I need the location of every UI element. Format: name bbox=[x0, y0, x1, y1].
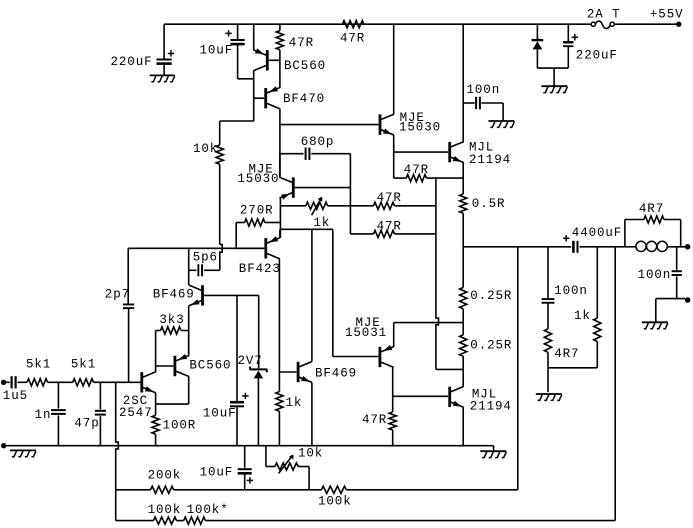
wire bias node down to 15031 base bbox=[333, 229, 379, 356]
wire Q8 collector down bbox=[188, 376, 190, 404]
svg-text:1k: 1k bbox=[574, 309, 591, 323]
svg-text:5p6: 5p6 bbox=[193, 250, 218, 264]
plus sign C2 bbox=[225, 30, 231, 36]
wire Q11 collector to Q12 base bbox=[393, 395, 448, 397]
svg-text:BF470: BF470 bbox=[283, 92, 325, 106]
svg-text:220uF: 220uF bbox=[111, 55, 153, 69]
label 21194 Q4 bbox=[469, 153, 511, 167]
capacitor C11 10uF bbox=[230, 401, 244, 446]
resistor R22 100k bbox=[153, 517, 183, 524]
label 21194 Q12 bbox=[470, 400, 512, 414]
ground symbol PSU bbox=[541, 86, 567, 92]
label +55V bbox=[650, 8, 684, 22]
svg-text:BF469: BF469 bbox=[153, 288, 195, 302]
value label 47R R3 bbox=[340, 31, 365, 45]
label BF469 Q10 bbox=[315, 366, 357, 380]
wire 5p6 branch left bbox=[188, 248, 190, 285]
plus sign C11 bbox=[242, 393, 248, 399]
value label 47R R4 bbox=[404, 163, 429, 177]
ground symbol input bbox=[10, 450, 36, 456]
svg-text:220uF: 220uF bbox=[576, 49, 618, 63]
label 15030 Q3 bbox=[399, 121, 441, 135]
value label 270R R6 bbox=[240, 203, 274, 217]
value label 47R R14 bbox=[362, 413, 387, 427]
label MJE Q11 bbox=[356, 316, 381, 330]
value label 2V7 D2 bbox=[238, 354, 263, 368]
fuse F1 2A T bbox=[591, 21, 614, 28]
value label 47R R7 bbox=[377, 191, 402, 205]
wire 3k3 left down bbox=[155, 331, 157, 373]
value label 5k1 R12 bbox=[71, 358, 96, 372]
wire Q11 emitter up bbox=[393, 323, 395, 347]
svg-text:15030: 15030 bbox=[237, 172, 279, 186]
svg-text:200k: 200k bbox=[148, 469, 182, 483]
ground symbol zobel bbox=[536, 394, 562, 400]
terminal +55V bbox=[676, 22, 681, 27]
svg-text:0.25R: 0.25R bbox=[470, 289, 512, 303]
resistor R19 1k output bbox=[594, 247, 601, 368]
value label 4R7 R17 bbox=[639, 202, 664, 216]
transistor Q8 BC560 PNP bbox=[156, 354, 189, 376]
svg-text:+55V: +55V bbox=[650, 8, 684, 22]
label BC560 Q1 bbox=[284, 59, 326, 73]
svg-text:2547: 2547 bbox=[119, 406, 153, 420]
value label 1k R19 bbox=[574, 309, 591, 323]
wire feedback tap with hop over ground rail bbox=[116, 382, 119, 520]
capacitor C8 1u5 input bbox=[6, 376, 27, 388]
resistor R15 0.25R bbox=[460, 288, 467, 323]
svg-text:BC560: BC560 bbox=[189, 359, 231, 373]
svg-text:15030: 15030 bbox=[399, 121, 441, 135]
wire Q11 emitter line bbox=[394, 322, 464, 324]
svg-text:10uF: 10uF bbox=[200, 43, 234, 57]
transistor Q6 BF423 PNP bbox=[236, 236, 279, 258]
value label 10uF C11 bbox=[203, 407, 237, 421]
svg-text:47R: 47R bbox=[340, 31, 365, 45]
label BF470 Q2 bbox=[283, 92, 325, 106]
svg-text:2A T: 2A T bbox=[587, 8, 621, 22]
svg-text:BF469: BF469 bbox=[315, 366, 357, 380]
resistor R4 47R driver-output bbox=[394, 175, 464, 182]
transistor Q11 MJE15031 PNP driver bbox=[379, 345, 394, 367]
svg-text:1n: 1n bbox=[35, 408, 52, 422]
svg-text:BC560: BC560 bbox=[284, 59, 326, 73]
label MJE Q5 bbox=[249, 163, 274, 177]
capacitor C15 10uF feedback bbox=[238, 446, 252, 490]
value label 10k R2 bbox=[193, 142, 218, 156]
value label 5k1 R11 bbox=[26, 358, 51, 372]
value label 680p C5 bbox=[301, 135, 335, 149]
value label 100n C4 bbox=[467, 83, 501, 97]
value label 0.5R R5 bbox=[472, 197, 506, 211]
value label 1u5 C8 bbox=[3, 389, 28, 403]
wire output rail bbox=[463, 246, 571, 248]
transistor Q4 MJL21194 NPN bbox=[448, 142, 463, 163]
svg-text:3k3: 3k3 bbox=[159, 313, 184, 327]
wire zobel bottoms join bbox=[548, 367, 597, 369]
wire Q12 emitter down to rail bbox=[462, 407, 464, 446]
transistor Q5 MJE15030 VAS bbox=[280, 177, 351, 199]
wire 270R left down to BF423 base bbox=[235, 223, 237, 249]
value label 0.25R R15 bbox=[470, 289, 512, 303]
value label 1k R13 bbox=[286, 396, 303, 410]
plus sign C15 bbox=[247, 477, 253, 483]
plus sign C12 bbox=[563, 235, 569, 241]
wire bias node across bbox=[280, 228, 332, 230]
svg-text:5k1: 5k1 bbox=[71, 358, 96, 372]
resistor R12 5k1 bbox=[73, 379, 141, 386]
wire R7/R8 node with hop bbox=[436, 178, 439, 369]
svg-text:21194: 21194 bbox=[470, 400, 512, 414]
capacitor C6 2p7 bbox=[123, 304, 134, 383]
resistor R20 200k bbox=[151, 486, 322, 493]
capacitor C1 220uF rail decoupling bbox=[157, 24, 172, 75]
value label 100R R10 bbox=[163, 418, 197, 432]
wire VAS base column bbox=[349, 154, 351, 234]
value label 200k R20 bbox=[148, 469, 182, 483]
wire FB2 line left bbox=[116, 520, 154, 522]
value label 2p7 C6 bbox=[105, 288, 130, 302]
resistor R16 0.25R bbox=[460, 323, 467, 370]
svg-text:1k: 1k bbox=[286, 396, 303, 410]
wire output column upper bbox=[462, 247, 464, 288]
svg-text:100n: 100n bbox=[467, 83, 501, 97]
value label 100n C14 bbox=[554, 284, 588, 298]
value label 100n C13 bbox=[638, 268, 672, 282]
zener diode D2 2V7 bbox=[250, 367, 267, 446]
value label 100k R21 bbox=[318, 495, 352, 509]
label BF423 Q6 bbox=[239, 262, 281, 276]
wire PSU bottoms join bbox=[537, 68, 568, 86]
wire Q5 collector up bbox=[279, 154, 281, 178]
svg-text:2V7: 2V7 bbox=[238, 354, 263, 368]
svg-text:10uF: 10uF bbox=[203, 407, 237, 421]
wire Q2 base node to 10k bbox=[220, 121, 254, 145]
svg-text:47R: 47R bbox=[289, 36, 314, 50]
capacitor C10 47p bbox=[95, 382, 106, 445]
wire Q1 collector down bbox=[253, 71, 255, 121]
transistor Q2 BF470 PNP bbox=[254, 86, 280, 108]
svg-text:680p: 680p bbox=[301, 135, 335, 149]
wire Q10 emitter down bbox=[311, 383, 313, 446]
label 2SC Q9 bbox=[123, 394, 148, 408]
wire Q9 emitter node bbox=[156, 393, 189, 405]
wire Q5 emitter down bbox=[279, 198, 281, 238]
svg-text:100k: 100k bbox=[148, 503, 182, 517]
wire Q8 emitter up bbox=[188, 331, 190, 356]
svg-text:100k*: 100k* bbox=[187, 503, 229, 517]
wire emitter line to output column bbox=[436, 368, 463, 370]
value label 10uF bbox=[200, 43, 234, 57]
value label 5p6 C7 bbox=[193, 250, 218, 264]
value label 10uF C15 bbox=[200, 466, 234, 480]
transistor Q12 MJL21194 NPN bbox=[448, 387, 463, 408]
wire to ground C13 bbox=[655, 299, 657, 322]
resistor R14 47R lower bias bbox=[389, 412, 396, 446]
wire ground rail bbox=[4, 445, 494, 447]
label 2547 Q9 bbox=[119, 406, 153, 420]
capacitor C2 10uF bootstrap bbox=[231, 24, 245, 45]
svg-text:100R: 100R bbox=[163, 418, 197, 432]
label MJL Q12 bbox=[472, 387, 497, 401]
svg-text:100k: 100k bbox=[318, 495, 352, 509]
transistor Q10 BF469 NPN bbox=[279, 362, 312, 383]
terminal output bbox=[685, 244, 691, 250]
wire Q9 collector up bbox=[0, 0, 1, 1]
wire Q7 emitter down bbox=[188, 306, 190, 354]
resistor R2 10k bbox=[216, 145, 223, 244]
wire rail to Q3 collector bbox=[393, 24, 395, 114]
svg-text:BF423: BF423 bbox=[239, 262, 281, 276]
wire Q3 emitter to Q4 base bbox=[394, 151, 448, 153]
svg-text:47R: 47R bbox=[362, 413, 387, 427]
resistor R11 5k1 bbox=[27, 379, 73, 386]
svg-text:10k: 10k bbox=[298, 447, 323, 461]
wire C2 bottom to BC560 collector line bbox=[238, 44, 254, 79]
terminal output return bbox=[685, 297, 691, 303]
ground symbol C13 bbox=[642, 322, 668, 328]
value label 47R R8 bbox=[377, 219, 402, 233]
value label 47p C10 bbox=[74, 417, 99, 431]
wire comp corner down 2p7 bbox=[127, 248, 129, 304]
wire Q2 collector down to VAS bbox=[279, 108, 281, 177]
wire output to FB1 line bbox=[517, 247, 519, 490]
wire Q10 collector up bbox=[311, 229, 313, 361]
inductor L1 output coil bbox=[625, 241, 685, 251]
wire Q4 emitter down bbox=[462, 162, 464, 194]
wire 10k lower with hop over comp line bbox=[220, 244, 223, 270]
wire Q6 collector down to 1k bbox=[278, 259, 280, 392]
terminal input bbox=[1, 380, 6, 385]
wire Q4 collector to rail bbox=[462, 24, 464, 142]
value label 10k VR2 bbox=[298, 447, 323, 461]
value label 3k3 R9 bbox=[159, 313, 184, 327]
svg-text:47p: 47p bbox=[74, 417, 99, 431]
svg-text:0.25R: 0.25R bbox=[470, 339, 512, 353]
wire +55V rail bbox=[164, 23, 591, 25]
label MJE Q3 bbox=[400, 111, 425, 125]
resistor R8 47R lower bbox=[350, 230, 436, 237]
plus sign C1 bbox=[168, 50, 174, 56]
plus sign C3 bbox=[572, 34, 578, 40]
label BC560 Q8 bbox=[189, 359, 231, 373]
capacitor C13 100n output zobel right bbox=[672, 247, 682, 299]
wire Q12 collector up bbox=[462, 369, 464, 386]
wire FB1 line bbox=[116, 489, 151, 491]
wire Q7 base to branches bbox=[236, 295, 238, 401]
svg-text:1k: 1k bbox=[313, 216, 330, 230]
svg-text:47R: 47R bbox=[404, 163, 429, 177]
diode D1 protection bbox=[532, 24, 544, 68]
svg-text:4R7: 4R7 bbox=[639, 202, 664, 216]
svg-text:270R: 270R bbox=[240, 203, 274, 217]
ground symbol under C4 bbox=[488, 121, 514, 127]
label 2A T bbox=[587, 8, 621, 22]
resistor R5 0.5R emitter bbox=[460, 194, 467, 247]
transistor Q1 BC560 PNP bbox=[254, 48, 280, 70]
svg-text:0.5R: 0.5R bbox=[472, 197, 506, 211]
value label 100k R22 bbox=[148, 503, 182, 517]
capacitor C14 100n zobel bbox=[542, 247, 555, 329]
wire Q2 emitter up to Q1 base node bbox=[279, 60, 281, 88]
svg-text:100n: 100n bbox=[554, 284, 588, 298]
wire comp line bbox=[128, 247, 264, 249]
svg-text:10uF: 10uF bbox=[200, 466, 234, 480]
resistor R10 100R bbox=[152, 404, 159, 446]
ground symbol under C1 bbox=[150, 75, 175, 81]
resistor R7 47R upper bbox=[350, 202, 436, 209]
resistor R18 4R7 zobel bbox=[544, 329, 551, 392]
svg-text:21194: 21194 bbox=[469, 153, 511, 167]
wire FB2 to output bbox=[614, 247, 616, 521]
value label 220uF bbox=[111, 55, 153, 69]
value label 220uF C3 bbox=[576, 49, 618, 63]
label 15030 Q5 bbox=[237, 172, 279, 186]
capacitor C7 5p6 bbox=[189, 264, 220, 276]
value label 47R R1 bbox=[289, 36, 314, 50]
svg-text:1u5: 1u5 bbox=[3, 389, 28, 403]
capacitor C12 4400uF bbox=[572, 241, 625, 253]
svg-text:100n: 100n bbox=[638, 268, 672, 282]
resistor R13 1k bbox=[276, 392, 283, 446]
svg-text:5k1: 5k1 bbox=[26, 358, 51, 372]
transistor Q3 MJE15030 driver NPN bbox=[280, 114, 394, 135]
resistor R9 3k3 bbox=[156, 327, 189, 334]
capacitor C5 680p bbox=[280, 148, 351, 160]
svg-text:47R: 47R bbox=[377, 219, 402, 233]
wire Q11 collector down bbox=[392, 368, 394, 412]
svg-text:47R: 47R bbox=[377, 191, 402, 205]
ground symbol output stage bbox=[480, 446, 506, 458]
svg-text:10k: 10k bbox=[193, 142, 218, 156]
svg-text:4400uF: 4400uF bbox=[572, 226, 622, 240]
svg-text:15031: 15031 bbox=[345, 326, 387, 340]
value label 1k VR1 bbox=[313, 216, 330, 230]
resistor R23 100k* bbox=[184, 517, 616, 524]
capacitor C9 1n bbox=[51, 382, 66, 445]
potentiometer VR1 1k bbox=[280, 197, 350, 216]
terminal input ground bbox=[1, 443, 6, 448]
resistor R17 4R7 output bbox=[625, 216, 681, 247]
potentiometer VR2 10k offset bbox=[266, 446, 309, 490]
capacitor C4 100n HF decoupling bbox=[463, 97, 503, 121]
label BF469 Q7 bbox=[153, 288, 195, 302]
wire Q3 emitter down bbox=[393, 135, 395, 178]
wire Q6 emitter up bbox=[279, 229, 281, 238]
svg-text:4R7: 4R7 bbox=[554, 347, 579, 361]
transistor Q7 BF469 NPN bbox=[189, 285, 259, 306]
value label 1n C9 bbox=[35, 408, 52, 422]
svg-text:2p7: 2p7 bbox=[105, 288, 130, 302]
value label 0.25R R16 bbox=[470, 339, 512, 353]
wire C13 to output return bbox=[656, 298, 685, 300]
wire fuse to +55V terminal bbox=[614, 23, 677, 25]
value label 4R7 R18 bbox=[554, 347, 579, 361]
resistor R21 100k mid bbox=[321, 486, 517, 493]
value label 4400uF C12 bbox=[572, 226, 622, 240]
resistor R6 270R bbox=[236, 219, 280, 226]
value label 100k* R23 bbox=[187, 503, 229, 517]
resistor R3 47R in rail bbox=[343, 21, 364, 28]
capacitor C3 220uF PSU bbox=[563, 24, 573, 68]
label MJL Q4 bbox=[469, 141, 494, 155]
label 15031 Q11 bbox=[345, 326, 387, 340]
wire Q1 emitter to rail bbox=[253, 24, 255, 50]
resistor R1 47R from rail bbox=[276, 24, 283, 60]
wire zener branch bbox=[258, 295, 260, 368]
transistor Q9 2SC2547 NPN bbox=[140, 372, 155, 393]
